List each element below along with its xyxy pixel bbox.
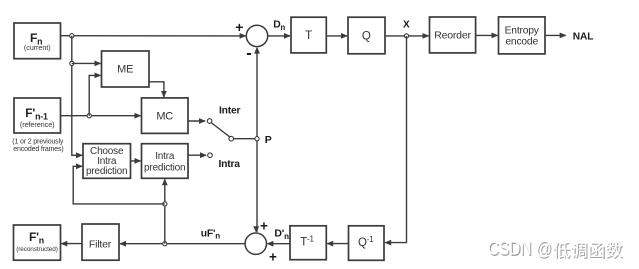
block Choose Intra prediction <box>83 144 131 179</box>
watermark CSDN @低调函数 <box>489 240 624 261</box>
switch pole contact <box>229 136 234 141</box>
svg-text:P: P <box>265 134 272 146</box>
switch Intra contact <box>208 153 213 158</box>
wire ME to MC <box>149 82 164 97</box>
svg-text:Inter: Inter <box>219 105 241 116</box>
block ME (motion estimation) <box>102 51 150 87</box>
node on Fn output (branch down) <box>70 34 74 38</box>
svg-text:Filter: Filter <box>89 238 112 250</box>
wire X down to Q-1 <box>385 36 406 243</box>
svg-text:ME: ME <box>117 64 133 76</box>
wire node P up to top adder minus input <box>256 48 258 139</box>
node feedback junction <box>163 202 167 206</box>
wire T-1 to bottom adder <box>267 243 290 245</box>
adder (top summing junction) <box>246 25 267 46</box>
switch arm (Inter selected) <box>211 123 229 137</box>
svg-text:Reorder: Reorder <box>434 30 471 42</box>
block T (transform) <box>291 17 326 53</box>
wire Fn to top adder <box>61 35 246 37</box>
svg-text:D'n: D'n <box>274 228 289 241</box>
block MC (motion compensation) <box>142 98 189 133</box>
wire top adder to T <box>268 35 290 37</box>
wire Choose Intra prediction to Intra prediction <box>131 160 141 162</box>
adder (bottom summing junction) <box>245 233 266 254</box>
node branch to ME <box>70 61 74 65</box>
svg-text:CSDN @: CSDN @ <box>488 239 552 260</box>
wire bottom adder to Filter (uF'n) <box>120 243 245 245</box>
block Intra prediction <box>142 144 189 179</box>
wire Q to Reorder <box>385 35 429 37</box>
wire MC to Inter contact <box>188 120 205 122</box>
block F'n (reconstructed frame) <box>14 225 61 260</box>
wire Q-1 to T-1 <box>327 243 348 245</box>
block T-1 (inverse transform) <box>290 226 326 260</box>
wire branch down to Choose Intra prediction <box>72 36 82 156</box>
wire Intra prediction to Intra contact <box>188 154 206 156</box>
block F'n-1 (reference frame) <box>14 98 61 133</box>
wire branch to ME input 1 <box>72 62 101 64</box>
svg-text:+: + <box>269 250 277 265</box>
svg-text:+: + <box>235 19 243 35</box>
block Filter <box>82 224 119 260</box>
svg-text:(1 or 2 previously: (1 or 2 previously <box>12 138 64 145</box>
wire pole to node P <box>233 138 257 140</box>
svg-text:uF'n: uF'n <box>201 228 220 240</box>
wire F'n-1 to MC <box>61 115 141 117</box>
svg-text:(reference): (reference) <box>20 120 55 129</box>
svg-text:(current): (current) <box>24 43 51 52</box>
svg-text:Intra: Intra <box>155 151 175 162</box>
node P junction <box>255 137 259 141</box>
svg-text:prediction: prediction <box>86 166 127 177</box>
svg-text:Q: Q <box>362 30 371 42</box>
svg-text:Dn: Dn <box>273 20 285 32</box>
svg-text:Intra: Intra <box>219 159 241 170</box>
svg-text:(reconstructed): (reconstructed) <box>16 246 57 253</box>
wire Entropy encode to NAL <box>545 34 566 36</box>
svg-text:encode: encode <box>505 36 538 47</box>
svg-text:NAL: NAL <box>573 32 594 43</box>
node on uF'n line (feedback branch) <box>163 242 167 246</box>
svg-text:MC: MC <box>156 110 173 122</box>
block Reorder <box>430 17 476 53</box>
wire node P down to bottom adder plus input <box>256 139 258 232</box>
wire Reorder to Entropy encode <box>476 34 498 36</box>
wire branch to ME input 2 <box>89 75 100 115</box>
svg-text:-: - <box>246 43 251 62</box>
svg-text:prediction: prediction <box>144 162 185 173</box>
block Q (quantizer) <box>348 17 385 54</box>
svg-text:X: X <box>403 20 410 31</box>
wire Filter to F'n <box>61 243 82 245</box>
block Fn (current frame) <box>14 23 61 59</box>
svg-text:T: T <box>305 30 312 42</box>
wire T to Q <box>326 35 347 37</box>
node on F'n-1 output (branch to ME) <box>87 114 91 118</box>
wire feedback to Choose Intra prediction <box>73 166 165 204</box>
wire feedback up to Intra prediction <box>164 204 166 244</box>
svg-text:+: + <box>260 219 268 234</box>
node X junction <box>404 34 408 38</box>
block Entropy encode <box>499 17 546 54</box>
switch Inter contact <box>207 119 212 124</box>
svg-text:encoded frames): encoded frames) <box>13 146 63 153</box>
block Q-1 (inverse quantizer) <box>349 226 385 260</box>
svg-text:Entropy: Entropy <box>505 25 540 36</box>
